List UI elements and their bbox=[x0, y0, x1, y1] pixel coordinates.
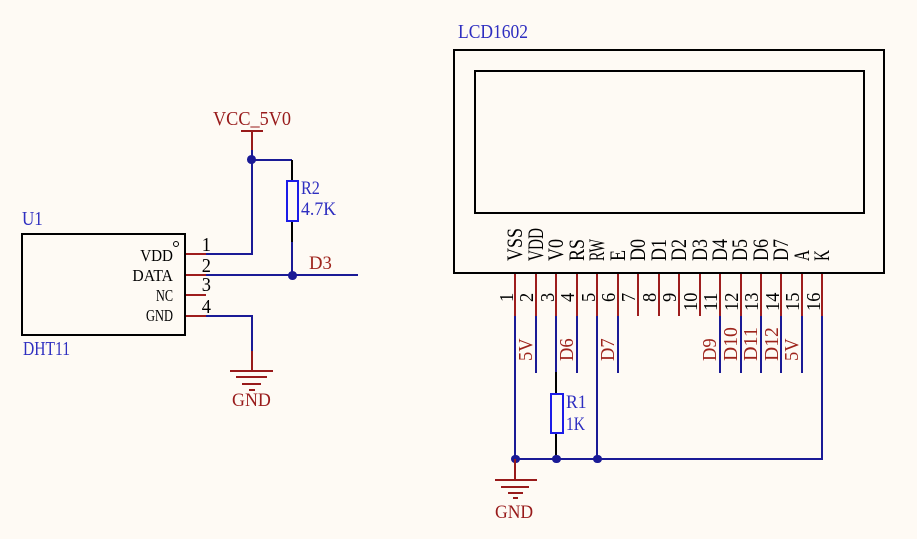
wire LCD pin 14 drop bbox=[780, 316, 782, 373]
net label 5V pin 15 bbox=[782, 338, 802, 361]
junction D3 node bbox=[288, 271, 297, 280]
LCD pin number 15 bbox=[783, 292, 803, 310]
LCD pin name D5 bbox=[729, 239, 751, 261]
LCD pin 15 stub bbox=[801, 274, 803, 316]
wire VCC to R2 bbox=[252, 159, 293, 161]
LCD pin number 9 bbox=[660, 292, 680, 301]
R1 bottom lead bbox=[555, 434, 557, 455]
LCD pin number 3 bbox=[538, 292, 558, 301]
U1 pin 4 stub bbox=[186, 315, 207, 317]
wire pin2 to D3 bbox=[206, 274, 358, 276]
junction bus pin5 bbox=[593, 455, 602, 464]
resistor R2 body bbox=[286, 180, 300, 222]
net label D10 pin 12 bbox=[721, 327, 741, 361]
LCD pin 11 stub bbox=[719, 274, 721, 316]
LCD pin name D6 bbox=[750, 239, 772, 261]
wire LCD pin 12 drop bbox=[740, 316, 742, 373]
LCD pin 10 stub bbox=[699, 274, 701, 316]
ground bar3 left bbox=[242, 383, 261, 385]
LCD pin number 1 bbox=[497, 292, 517, 301]
R1 value 1K bbox=[566, 415, 585, 434]
ground bar2 right bbox=[501, 486, 529, 488]
LCD pin name D4 bbox=[709, 239, 731, 261]
net label D7 pin 6 bbox=[598, 338, 618, 361]
R1 designator bbox=[566, 393, 587, 412]
wire LCD pin 2 drop bbox=[535, 316, 537, 373]
wire LCD pin 13 drop bbox=[760, 316, 762, 373]
LCD pin name D7 bbox=[770, 239, 792, 261]
wire LCD pin5 to bus bbox=[596, 316, 598, 460]
LCD pin name RS bbox=[566, 239, 588, 261]
wire VCC vertical bbox=[251, 150, 253, 255]
U1 pin name VDD bbox=[0, 247, 173, 264]
ground stub left bbox=[251, 351, 253, 371]
wire LCD pin16 drop bbox=[821, 316, 823, 460]
R2 top lead bbox=[291, 160, 293, 181]
U1 pin name NC bbox=[29, 287, 173, 304]
component U1 DHT11 body bbox=[21, 233, 185, 336]
LCD pin name VDD bbox=[525, 228, 547, 261]
LCD pin number 5 bbox=[579, 292, 599, 301]
LCD pin number 4 bbox=[558, 292, 578, 301]
R2 designator bbox=[301, 179, 320, 198]
LCD pin name RW bbox=[586, 239, 608, 261]
U1 pin number 2 bbox=[27, 256, 211, 276]
LCD pin number 7 bbox=[619, 292, 639, 301]
wire pin4 horizontal bbox=[206, 315, 252, 317]
wire ground bus horizontal bbox=[514, 458, 823, 460]
LCD pin 1 stub bbox=[514, 274, 516, 316]
ground bar1 right bbox=[495, 479, 537, 481]
net label D12 pin 14 bbox=[762, 327, 782, 361]
LCD pin 12 stub bbox=[740, 274, 742, 316]
wire LCD pin 15 drop bbox=[801, 316, 803, 373]
ground stub right bbox=[514, 459, 516, 479]
designator LCD1602 bbox=[458, 22, 528, 42]
LCD pin 5 stub bbox=[596, 274, 598, 316]
wire pin1 horizontal bbox=[206, 253, 252, 255]
wire pin4 vertical bbox=[251, 315, 253, 351]
LCD pin 8 stub bbox=[658, 274, 660, 316]
LCD pin name D2 bbox=[668, 239, 690, 261]
U1 pin 3 stub bbox=[186, 294, 207, 296]
net label D9 pin 11 bbox=[700, 338, 720, 361]
LCD pin number 10 bbox=[681, 292, 701, 310]
LCD pin name K bbox=[811, 250, 833, 261]
LCD pin number 11 bbox=[701, 292, 721, 310]
LCD pin number 2 bbox=[517, 292, 537, 301]
junction bus R1 bbox=[552, 455, 561, 464]
ground label GND left bbox=[232, 391, 271, 410]
ground label GND right bbox=[495, 503, 533, 522]
LCD pin name D3 bbox=[689, 239, 711, 261]
LCD pin 14 stub bbox=[780, 274, 782, 316]
wire LCD pin1 to bus bbox=[514, 316, 516, 460]
U1 pin number 4 bbox=[27, 297, 211, 317]
LCD pin 13 stub bbox=[760, 274, 762, 316]
LCD pin 6 stub bbox=[617, 274, 619, 316]
ground bar1 left bbox=[230, 370, 273, 372]
wire LCD pin3 drop bbox=[555, 316, 557, 372]
U1 pin number 1 bbox=[27, 235, 211, 255]
power net label VCC_5V0 bbox=[213, 109, 291, 129]
wire LCD pin 4 drop bbox=[576, 316, 578, 373]
LCD pin name D1 bbox=[648, 239, 670, 261]
wire R1 to bus bbox=[555, 455, 557, 460]
wire LCD pin 11 drop bbox=[719, 316, 721, 373]
LCD pin 16 stub bbox=[821, 274, 823, 316]
power VCC_5V0 bar bbox=[241, 130, 263, 132]
U1 pin 1 stub bbox=[186, 253, 207, 255]
LCD pin number 12 bbox=[722, 292, 742, 310]
LCD pin 4 stub bbox=[576, 274, 578, 316]
LCD1602 display window bbox=[474, 70, 865, 214]
LCD pin number 14 bbox=[763, 292, 783, 310]
ground bar4 left bbox=[249, 389, 255, 391]
wire R2 to D3 node bbox=[291, 242, 293, 275]
U1 pin name GND bbox=[26, 307, 173, 324]
pin 1 dot marker bbox=[173, 241, 180, 248]
designator U1 bbox=[22, 209, 43, 229]
U1 pin 2 stub bbox=[186, 274, 207, 276]
LCD pin number 8 bbox=[640, 292, 660, 301]
LCD pin name V0 bbox=[545, 239, 567, 261]
component LCD1602 outer body bbox=[453, 49, 885, 275]
junction bus pin1 bbox=[511, 455, 520, 464]
U1 pin name DATA bbox=[0, 267, 173, 284]
LCD pin number 13 bbox=[742, 292, 762, 310]
LCD pin number 6 bbox=[599, 292, 619, 301]
LCD pin number 16 bbox=[804, 292, 824, 310]
R2 value 4.7K bbox=[301, 200, 336, 219]
LCD pin 9 stub bbox=[678, 274, 680, 316]
net label D6 pin 4 bbox=[557, 338, 577, 361]
U1 pin number 3 bbox=[27, 275, 211, 295]
net label D3 bbox=[309, 254, 332, 273]
wire LCD pin 6 drop bbox=[617, 316, 619, 373]
resistor R1 body bbox=[550, 393, 564, 434]
LCD pin name VSS bbox=[504, 228, 526, 261]
net label 5V pin 2 bbox=[516, 338, 536, 361]
LCD pin name A bbox=[791, 250, 813, 261]
LCD pin 7 stub bbox=[637, 274, 639, 316]
LCD pin name D0 bbox=[627, 239, 649, 261]
LCD pin 2 stub bbox=[535, 274, 537, 316]
designator label DHT11 bbox=[23, 339, 70, 359]
LCD pin 3 stub bbox=[555, 274, 557, 316]
R2 bottom lead bbox=[291, 222, 293, 242]
ground bar3 right bbox=[508, 492, 523, 494]
power VCC_5V0 stub bbox=[251, 132, 253, 151]
net label D11 pin 13 bbox=[741, 327, 761, 361]
junction VCC node bbox=[247, 155, 256, 164]
R1 top lead bbox=[555, 372, 557, 394]
ground bar2 left bbox=[236, 376, 268, 378]
LCD pin name E bbox=[607, 250, 629, 261]
ground bar4 right bbox=[513, 497, 518, 499]
